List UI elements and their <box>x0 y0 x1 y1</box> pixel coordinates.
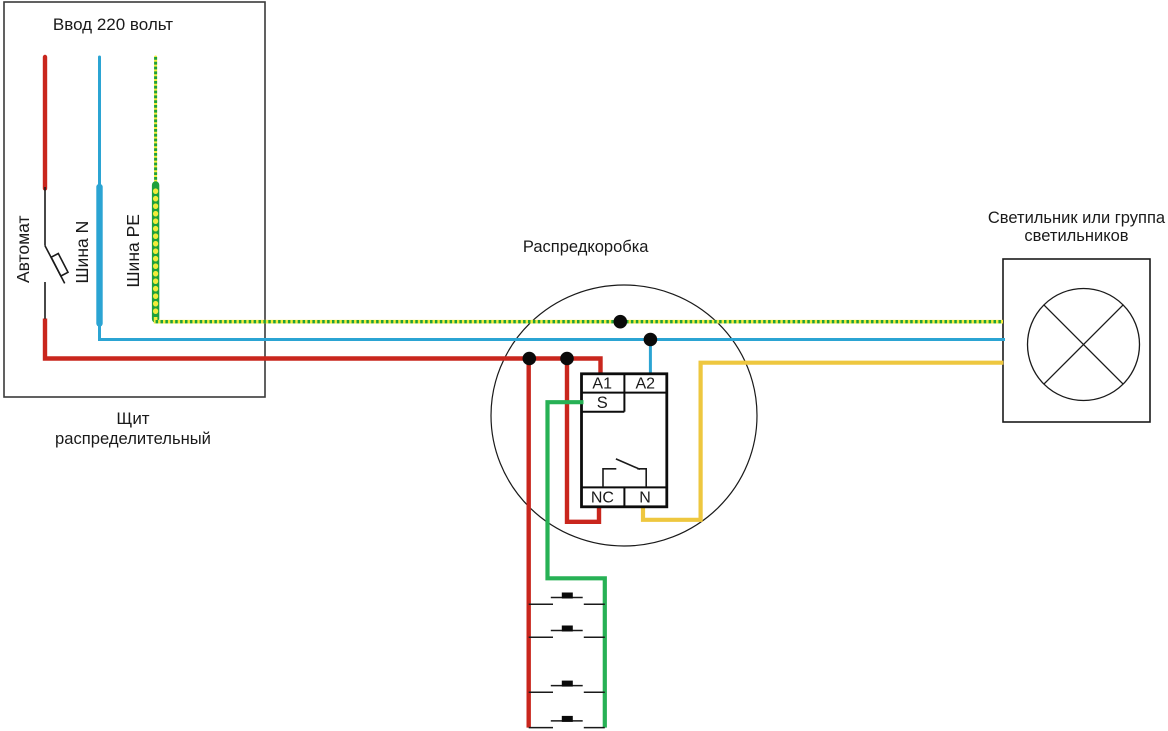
svg-text:A1: A1 <box>592 376 612 393</box>
svg-text:N: N <box>639 489 651 506</box>
svg-text:Ввод 220 вольт: Ввод 220 вольт <box>53 15 173 34</box>
svg-text:S: S <box>597 394 608 412</box>
svg-text:A2: A2 <box>636 376 656 393</box>
svg-text:Шина PE: Шина PE <box>123 214 143 287</box>
svg-text:NC: NC <box>591 489 614 506</box>
svg-text:Шина N: Шина N <box>72 221 92 284</box>
svg-text:Щит: Щит <box>116 409 149 428</box>
svg-text:светильников: светильников <box>1024 227 1128 245</box>
svg-text:Светильник или группа: Светильник или группа <box>988 209 1166 227</box>
svg-text:Распредкоробка: Распредкоробка <box>523 238 649 256</box>
svg-text:распределительный: распределительный <box>55 429 211 448</box>
svg-text:Автомат: Автомат <box>13 215 33 283</box>
